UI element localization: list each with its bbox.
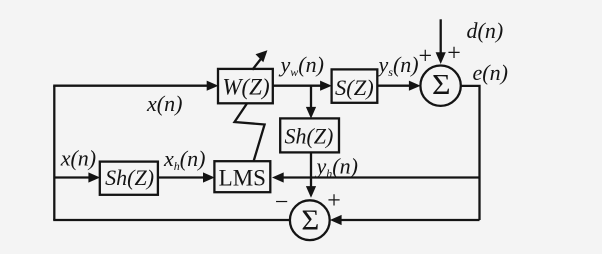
- svg-text:xh(n): xh(n): [163, 146, 205, 173]
- svg-text:+: +: [327, 188, 341, 214]
- block W(Z): [218, 69, 273, 103]
- adaptation arrow through W(Z): [252, 50, 267, 70]
- sum1 circle top: [420, 66, 460, 106]
- svg-text:e(n): e(n): [473, 60, 508, 85]
- wire top x(n) into W(Z): [53, 85, 208, 87]
- wire W(Z) to S(Z): [273, 85, 322, 87]
- arrowhead into LMS right: [272, 172, 284, 182]
- arrowhead into LMS left: [203, 172, 215, 182]
- wire x(n) branch into Sh(Z) left: [54, 176, 89, 178]
- svg-text:x(n): x(n): [60, 146, 96, 171]
- svg-text:d(n): d(n): [467, 18, 504, 43]
- arrowhead into sum1 left: [409, 81, 421, 91]
- svg-text:ys(n): ys(n): [377, 52, 419, 79]
- wire e(n) from sum1 right then down: [460, 86, 480, 220]
- wire d(n) into sum1: [440, 19, 442, 53]
- block S(Z): [332, 69, 378, 102]
- svg-text:Σ: Σ: [301, 206, 319, 236]
- arrowhead into W(Z): [207, 81, 219, 91]
- arrowhead into sum2 right: [330, 215, 342, 225]
- arrowhead d(n) into sum1 top: [436, 52, 446, 64]
- svg-text:+: +: [419, 44, 433, 70]
- svg-text:Sh(Z): Sh(Z): [105, 165, 154, 190]
- svg-text:+: +: [447, 40, 461, 66]
- arrowhead y_h into sum2 top: [306, 186, 316, 198]
- wire e branch into LMS right: [281, 176, 480, 178]
- wire junction down to Sh(Z) mid: [310, 86, 312, 109]
- wire y_h vertical Sh(Z) mid down to sum2: [310, 152, 312, 188]
- block Sh(Z) mid: [280, 118, 339, 152]
- arrowhead into S(Z): [320, 81, 332, 91]
- svg-text:x(n): x(n): [146, 91, 182, 116]
- block LMS: [214, 161, 270, 192]
- svg-text:Sh(Z): Sh(Z): [284, 123, 333, 148]
- arrowhead into Sh(Z) left block: [88, 172, 100, 182]
- zigzag bolt LMS to W(Z): [235, 96, 265, 163]
- svg-text:yh(n): yh(n): [315, 154, 358, 181]
- svg-text:−: −: [275, 190, 289, 216]
- wire S(Z) to sum1: [377, 85, 411, 87]
- svg-text:Σ: Σ: [432, 70, 451, 101]
- svg-text:yw(n): yw(n): [279, 52, 324, 79]
- sum2 circle bottom: [290, 200, 330, 240]
- arrowhead into Sh(Z) mid: [306, 107, 316, 119]
- block Sh(Z) left: [100, 162, 158, 195]
- svg-text:LMS: LMS: [219, 166, 266, 191]
- wire left vertical feedback x(n): [53, 86, 55, 220]
- wire bottom e into sum2 right: [341, 219, 480, 221]
- svg-text:S(Z): S(Z): [335, 75, 374, 100]
- wire sum2 output bottom to left: [53, 219, 290, 221]
- svg-text:W(Z): W(Z): [222, 75, 269, 100]
- wire Sh(Z) left to LMS: [158, 176, 205, 178]
